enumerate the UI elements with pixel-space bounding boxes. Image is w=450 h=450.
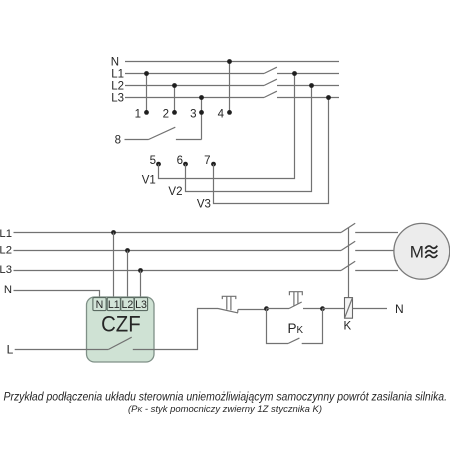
svg-text:5: 5 [150, 155, 156, 167]
wire coil K to N [353, 308, 388, 310]
svg-text:L3: L3 [135, 299, 147, 311]
switch 8 blade [149, 127, 176, 139]
auxiliary contact Pk branch left wire [267, 309, 289, 344]
svg-text:L2: L2 [0, 244, 12, 256]
wire L3 bus right (top) [277, 97, 339, 99]
wire switch 8 left lead [125, 139, 149, 141]
auxiliary contact Pk blade (NO) [288, 338, 299, 343]
svg-text:L2: L2 [122, 299, 134, 311]
wire L2 tap to CZF terminal [127, 251, 129, 300]
wire switch 8 right contact [176, 139, 202, 141]
svg-text:8: 8 [115, 135, 121, 147]
terminal 5 dot [156, 162, 161, 167]
switch blade in L3 bus [264, 91, 277, 97]
wire L2 bus right (top) [277, 85, 339, 87]
wire L3 tap to CZF terminal [140, 271, 142, 300]
junction dot before START [264, 306, 269, 311]
wire junction to START [267, 308, 290, 310]
terminal 6 dot [183, 162, 188, 167]
wire L1 bus right (top) [277, 73, 339, 75]
svg-text:L2: L2 [111, 81, 124, 93]
wire N bus (top) [125, 61, 339, 63]
contactor K mechanical link [348, 228, 350, 298]
svg-text:N: N [395, 302, 404, 316]
svg-text:N: N [4, 284, 12, 296]
terminal 7 dot [211, 162, 216, 167]
wire terminal 3 to L3 and down to switch 8 [201, 98, 203, 140]
svg-text:V3: V3 [197, 198, 211, 210]
wire L into CZF switch [15, 349, 109, 351]
junction dot L2 to CZF [125, 248, 130, 253]
wire junction 2 to coil K [323, 308, 345, 310]
svg-text:N: N [96, 299, 104, 311]
relay CZF body [87, 297, 155, 362]
wire L2 to motor [355, 250, 396, 252]
auxiliary contact Pk right wire [302, 309, 323, 344]
relay CZF terminal L3 box [134, 298, 147, 311]
motor M triple-tilde symbol [425, 246, 437, 249]
wire terminal 2 to L2 [174, 86, 176, 113]
svg-text:PK: PK [288, 321, 304, 336]
junction dot on L1 (terminal 1) [144, 71, 149, 76]
junction dot V2 on L2 [309, 83, 314, 88]
svg-text:4: 4 [218, 109, 225, 121]
wire N phase line into CZF [14, 291, 100, 300]
wire L1 bus left (top) [125, 73, 264, 75]
wire V1: terminal 5 to L1 tap [159, 74, 295, 179]
junction dot after START [320, 306, 325, 311]
svg-text:M: M [410, 243, 424, 262]
svg-text:(PK - styk pomocniczy zwierny: (PK - styk pomocniczy zwierny 1Z styczni… [128, 403, 322, 414]
svg-text:N: N [111, 56, 119, 68]
wire L2 phase line [14, 250, 342, 252]
relay CZF terminal N box [93, 298, 106, 311]
wire CZF output contact to control line [133, 309, 218, 350]
pushbutton START plunger cap [289, 292, 302, 306]
wire L3 to motor [355, 270, 398, 272]
svg-text:7: 7 [204, 155, 210, 167]
switch blade in L2 bus [264, 79, 277, 85]
wire terminal 4 to N [229, 62, 231, 113]
pushbutton STOP right contact tick [237, 310, 239, 313]
wire V2: terminal 6 to L2 tap [186, 86, 312, 192]
junction dot on L2 (terminal 2) [172, 83, 177, 88]
terminal 2 dot [172, 110, 177, 115]
svg-text:2: 2 [163, 109, 169, 121]
contactor K main contact 2 blade [341, 241, 355, 250]
coil K diagonal [345, 298, 353, 319]
pushbutton STOP plunger cap [222, 296, 236, 310]
relay CZF terminal L1 box [107, 298, 120, 311]
svg-text:V2: V2 [168, 186, 182, 198]
wire L1 tap to CZF terminal [113, 233, 115, 300]
svg-text:Przykład podłączenia układu st: Przykład podłączenia układu sterownia un… [4, 389, 448, 403]
junction dot V3 on L3 [326, 95, 331, 100]
svg-text:CZF: CZF [101, 311, 141, 336]
svg-text:L1: L1 [108, 299, 120, 311]
terminal 4 dot [227, 110, 232, 115]
svg-text:3: 3 [190, 109, 196, 121]
wire L3 bus left (top) [125, 97, 264, 99]
junction dot L1 to CZF [111, 230, 116, 235]
wire L1 phase line [14, 232, 342, 234]
svg-text:L: L [7, 343, 14, 357]
svg-text:L1: L1 [111, 69, 124, 81]
switch blade in L1 bus [264, 67, 277, 73]
junction dot on N (terminal 4) [227, 59, 232, 64]
pushbutton STOP blade (NC) [218, 309, 238, 313]
wire L2 bus left (top) [125, 85, 264, 87]
svg-text:1: 1 [135, 109, 141, 121]
contactor K main contact 3 blade [341, 261, 355, 270]
junction dot L3 to CZF [138, 268, 143, 273]
relay CZF output contact blade [108, 337, 131, 349]
pushbutton START blade (NO) [289, 302, 302, 309]
relay CZF terminal L2 box [121, 298, 134, 311]
terminal 3 dot [199, 110, 204, 115]
wire START to junction 2 [303, 308, 323, 310]
svg-text:L3: L3 [111, 93, 124, 105]
junction dot on L3 (terminal 3) [199, 95, 204, 100]
svg-text:L3: L3 [0, 264, 12, 276]
wire terminal 1 to L1 [146, 74, 148, 113]
wire L1 to motor [355, 232, 398, 234]
svg-text:6: 6 [177, 155, 183, 167]
svg-text:K: K [343, 320, 351, 332]
svg-text:V1: V1 [142, 175, 156, 187]
wire L3 phase line [14, 270, 342, 272]
contactor K main contact 1 blade [341, 223, 355, 232]
svg-text:L1: L1 [0, 228, 12, 240]
motor M body [394, 223, 450, 279]
junction dot V1 on L1 [292, 71, 297, 76]
wire V3: terminal 7 to L3 tap [214, 98, 329, 204]
terminal 1 dot [144, 110, 149, 115]
coil K body [345, 298, 353, 319]
wire STOP to junction [238, 309, 267, 311]
